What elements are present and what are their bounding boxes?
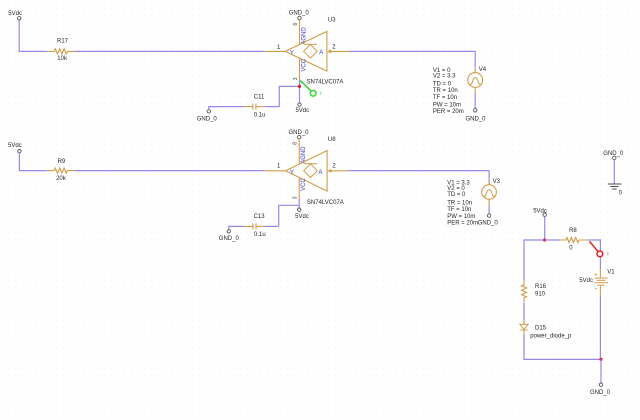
svg-text:910: 910: [535, 291, 546, 297]
resistor R17 10k: [47, 38, 75, 62]
svg-text:R17: R17: [57, 38, 69, 44]
svg-text:power_diode_p: power_diode_p: [530, 333, 572, 339]
wire GND_0 to ground symbol: [613, 160, 615, 184]
svg-text:SN74LVC07A: SN74LVC07A: [307, 80, 344, 86]
buffer U8 SN74LVC07A: [265, 137, 349, 206]
svg-text:VCC: VCC: [301, 178, 307, 191]
svg-text:5Vdc: 5Vdc: [8, 143, 22, 149]
power port GND_0 (V3 bottom): [478, 214, 499, 227]
power port GND_0 (right circuit bottom): [590, 383, 611, 396]
svg-text:10k: 10k: [57, 56, 68, 62]
svg-text:GND_0: GND_0: [219, 236, 240, 242]
svg-text:R9: R9: [58, 159, 66, 165]
power port GND_0 (U8 top): [288, 130, 309, 139]
svg-text:Y: Y: [290, 50, 294, 56]
wire junction to GND_0: [600, 359, 602, 383]
power port 5Vdc (U8 VCC): [295, 208, 309, 220]
voltage marker (green probe): [300, 81, 321, 97]
wire V3 to GND_0: [488, 206, 490, 214]
wire V4 to GND_0: [474, 94, 476, 109]
svg-text:TF = 10n: TF = 10n: [433, 95, 457, 101]
svg-text:V2 = 3.3: V2 = 3.3: [433, 74, 456, 80]
svg-text:SN74LVC07A: SN74LVC07A: [307, 200, 344, 206]
svg-text:V2 = 0: V2 = 0: [447, 186, 465, 192]
svg-text:V3: V3: [493, 179, 501, 185]
capacitor C11 0.1u: [244, 94, 265, 118]
svg-text:PW = 10m: PW = 10m: [447, 214, 475, 220]
svg-text:A: A: [319, 50, 323, 56]
diode D15 power_diode_p: [520, 320, 572, 339]
svg-text:TR = 10n: TR = 10n: [433, 88, 458, 94]
junction (red dot, bottom): [599, 358, 602, 361]
svg-text:C11: C11: [254, 94, 265, 100]
svg-text:V4: V4: [479, 67, 487, 73]
wire U8 pin 2 to V3: [349, 171, 490, 184]
svg-text:3: 3: [293, 77, 299, 80]
svg-text:GND_0: GND_0: [197, 116, 218, 122]
wire R17 to U3 pin 1: [75, 50, 265, 52]
power port GND_0 (U3 top): [289, 10, 310, 19]
wire 5Vdc to R17: [19, 20, 47, 51]
voltage source V1 5Vdc (VDC battery): [579, 269, 615, 295]
svg-text:GND_0: GND_0: [465, 116, 486, 122]
svg-text:5Vdc: 5Vdc: [8, 11, 22, 17]
svg-text:TR = 10n: TR = 10n: [447, 201, 472, 207]
power port GND_0 (C11 left): [197, 110, 218, 123]
buffer U3 SN74LVC07A: [265, 17, 350, 85]
power port 5Vdc (right circuit top): [533, 209, 547, 217]
svg-text:5Vdc: 5Vdc: [295, 214, 309, 220]
wire U3 pin 2 to V4: [349, 51, 475, 67]
svg-text:U3: U3: [328, 17, 336, 23]
svg-text:3: 3: [293, 196, 299, 199]
junction (red dot): [298, 85, 301, 88]
svg-text:V1: V1: [607, 269, 615, 275]
wire C11 to junction: [265, 106, 279, 108]
resistor R9 20k: [47, 159, 75, 182]
power port 5Vdc (U3 VCC): [295, 103, 309, 114]
svg-text:R8: R8: [569, 228, 577, 234]
svg-text:PER = 20m: PER = 20m: [447, 221, 478, 227]
svg-text:GND_0: GND_0: [478, 221, 499, 227]
junction (red dot): [543, 238, 546, 241]
wire D15 to bottom junction: [524, 334, 601, 359]
wire GND_0 to C11: [209, 107, 244, 110]
wire VCC junction (row 2): [279, 205, 300, 226]
svg-text:8: 8: [293, 23, 299, 26]
power port GND_0 (C13 left): [219, 230, 240, 242]
wire R16 to D15: [523, 303, 525, 320]
voltage source V4 (VPULSE): [433, 67, 487, 115]
current marker (red probe): [590, 241, 609, 256]
svg-text:VCC: VCC: [301, 58, 307, 71]
svg-text:PW = 10m: PW = 10m: [433, 102, 461, 108]
resistor R16 910: [521, 280, 546, 303]
svg-text:TD = 0: TD = 0: [447, 192, 466, 198]
wire junction to R16 branch: [524, 240, 545, 280]
power port 5Vdc (row 2 left): [8, 143, 22, 153]
power port GND_0 (V4 bottom): [465, 109, 486, 123]
wire C13 to VCC line: [266, 225, 279, 227]
svg-text:R16: R16: [535, 284, 547, 290]
svg-text:20k: 20k: [56, 176, 67, 182]
wire 5Vdc to R9: [19, 153, 46, 171]
svg-text:8: 8: [293, 142, 299, 145]
svg-text:D15: D15: [535, 326, 547, 332]
ground symbol 0: [608, 184, 623, 196]
wire GND_0 to C13: [229, 226, 244, 229]
svg-text:0.1u: 0.1u: [254, 232, 266, 238]
wire 5Vdc to junction: [544, 217, 546, 241]
voltage source V3 (VPULSE): [447, 179, 500, 227]
svg-text:U8: U8: [328, 137, 336, 143]
wire junction to R8: [545, 239, 560, 241]
resistor R8 0: [560, 228, 589, 252]
power port 5Vdc (row 1 left): [8, 11, 22, 20]
svg-text:GND_0: GND_0: [590, 390, 611, 396]
wire R8 to V1: [589, 240, 601, 269]
power port GND_0 (far right, net 0): [603, 151, 624, 159]
svg-text:5Vdc: 5Vdc: [295, 108, 309, 114]
wire VCC junction (row 1): [279, 86, 299, 106]
svg-text:A: A: [318, 170, 322, 176]
svg-text:0.1u: 0.1u: [254, 112, 266, 118]
svg-text:TF = 10n: TF = 10n: [447, 207, 471, 213]
wire V1 to bottom junction: [599, 295, 601, 359]
svg-text:PER = 20m: PER = 20m: [433, 109, 464, 115]
svg-text:TD = 0: TD = 0: [433, 82, 452, 88]
svg-text:GND_0: GND_0: [289, 10, 310, 16]
wire R9 to U8 pin 1: [75, 170, 265, 172]
svg-text:C13: C13: [254, 214, 266, 220]
svg-text:5Vdc: 5Vdc: [579, 278, 593, 284]
capacitor C13 0.1u: [244, 214, 265, 238]
svg-text:Y: Y: [290, 170, 294, 176]
